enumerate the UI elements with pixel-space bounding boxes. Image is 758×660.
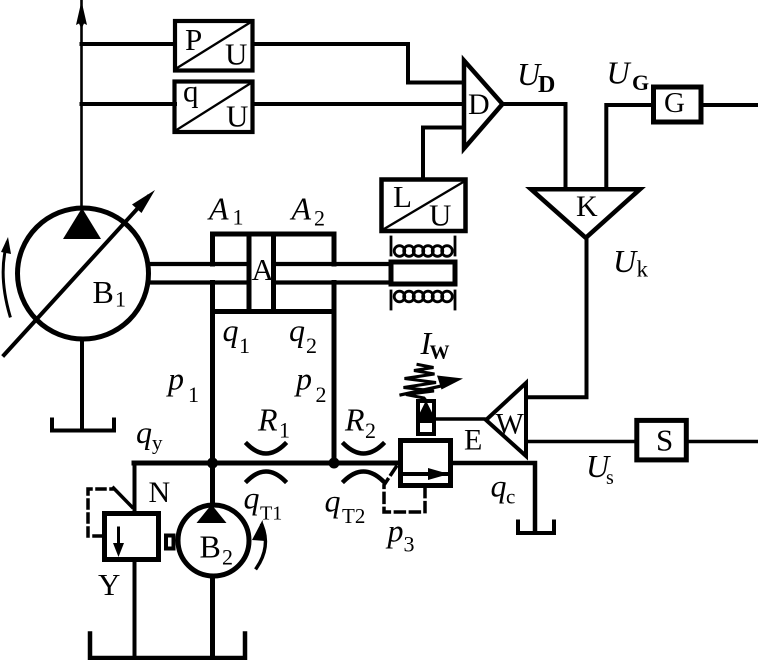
svg-text:R: R <box>257 402 278 438</box>
svg-text:N: N <box>149 476 171 509</box>
svg-text:1: 1 <box>188 382 199 407</box>
svg-text:q: q <box>289 312 305 348</box>
svg-text:A: A <box>207 191 229 227</box>
svg-text:q: q <box>136 414 152 450</box>
svg-text:p: p <box>386 513 404 549</box>
svg-text:1: 1 <box>233 205 244 230</box>
svg-text:p: p <box>294 361 312 397</box>
svg-text:A: A <box>290 191 312 227</box>
svg-text:k: k <box>637 257 649 282</box>
svg-text:P: P <box>185 22 202 57</box>
svg-text:W: W <box>430 342 450 364</box>
svg-text:q: q <box>223 312 239 348</box>
svg-text:1: 1 <box>115 287 126 312</box>
svg-text:Y: Y <box>98 567 120 602</box>
svg-text:W: W <box>496 408 525 441</box>
svg-text:D: D <box>468 88 490 121</box>
svg-text:L: L <box>393 179 412 214</box>
svg-text:U: U <box>226 99 248 134</box>
svg-text:G: G <box>632 70 649 95</box>
svg-text:K: K <box>576 190 598 223</box>
svg-text:A: A <box>252 252 275 287</box>
svg-text:S: S <box>656 423 673 458</box>
svg-text:c: c <box>506 485 515 509</box>
svg-text:D: D <box>538 72 555 98</box>
svg-text:2: 2 <box>222 545 233 570</box>
svg-text:2: 2 <box>365 418 376 443</box>
svg-text:G: G <box>664 87 685 119</box>
svg-text:q: q <box>491 468 507 504</box>
svg-text:T2: T2 <box>342 504 365 528</box>
svg-text:q: q <box>183 74 199 109</box>
svg-text:2: 2 <box>316 382 327 407</box>
svg-text:1: 1 <box>279 418 290 443</box>
svg-text:T1: T1 <box>260 503 282 525</box>
svg-text:E: E <box>464 424 482 457</box>
svg-text:q: q <box>325 483 341 519</box>
svg-text:2: 2 <box>314 206 325 231</box>
svg-text:U: U <box>429 198 451 233</box>
svg-text:B: B <box>93 274 114 310</box>
svg-text:1: 1 <box>239 333 250 358</box>
svg-text:2: 2 <box>306 333 317 358</box>
svg-text:q: q <box>244 480 260 516</box>
svg-text:y: y <box>152 431 163 455</box>
svg-text:3: 3 <box>404 532 415 557</box>
svg-text:U: U <box>225 37 247 72</box>
svg-text:R: R <box>344 402 365 438</box>
svg-text:p: p <box>166 361 184 397</box>
svg-text:U: U <box>607 55 632 91</box>
svg-text:B: B <box>200 529 221 565</box>
svg-text:s: s <box>606 467 614 489</box>
svg-text:U: U <box>613 243 638 279</box>
